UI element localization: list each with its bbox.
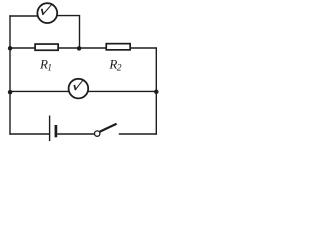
- wire middle row left: [10, 90, 69, 92]
- wire right rail: [155, 47, 157, 134]
- node dot left rail middle row: [8, 90, 13, 95]
- wire bottom row right: [119, 133, 157, 135]
- wire resistor row right: [131, 47, 157, 49]
- switch pivot: [95, 131, 100, 136]
- wire bottom row left: [9, 133, 49, 135]
- wire resistor row middle: [59, 47, 106, 49]
- node dot right rail middle row: [154, 90, 159, 95]
- voltmeter V2: [69, 79, 89, 99]
- wire middle row right: [88, 90, 156, 92]
- wire top row right: [57, 16, 79, 48]
- wire top row left: [9, 15, 37, 17]
- wire left rail: [9, 15, 11, 134]
- resistor R2: [106, 44, 130, 50]
- node dot between R1 and R2: [77, 46, 82, 51]
- wire resistor row left: [10, 47, 35, 49]
- battery cell: long plate: [49, 116, 51, 142]
- voltmeter V1: [37, 3, 57, 23]
- wire bottom row middle: [57, 133, 94, 135]
- node dot left of R1: [8, 46, 13, 51]
- svg-text:1: 1: [47, 63, 52, 73]
- battery cell: short thick plate: [55, 125, 58, 137]
- svg-text:2: 2: [117, 63, 122, 73]
- resistor R1: [35, 44, 58, 50]
- switch lever: [100, 124, 117, 132]
